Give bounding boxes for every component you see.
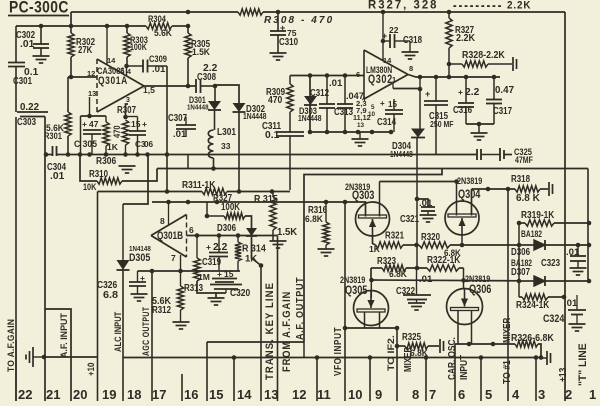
junction y328 x397 <box>395 326 400 331</box>
svg-text:47MF: 47MF <box>515 155 533 165</box>
svg-text:1K: 1K <box>107 142 119 152</box>
svg-text:TO #1: TO #1 <box>502 360 513 384</box>
wire Q305 gate <box>365 280 380 328</box>
wire pin6 bus <box>290 75 364 77</box>
wire VFO line <box>343 200 348 401</box>
capacitor C326 <box>97 271 146 301</box>
wire term6 <box>454 344 456 401</box>
label ALC INPUT <box>113 311 123 352</box>
svg-text:8: 8 <box>412 387 419 401</box>
junction y132 x372 <box>370 130 375 135</box>
svg-text:R 315: R 315 <box>254 194 278 205</box>
resistor R319 <box>519 210 589 226</box>
svg-text:3: 3 <box>538 387 545 401</box>
ground C321 <box>420 215 437 222</box>
label INPUT t6 <box>458 354 470 380</box>
svg-text:4: 4 <box>362 96 366 103</box>
junction y26 x71 <box>69 24 74 29</box>
svg-text:INPUT: INPUT <box>458 354 470 380</box>
title PC-300C <box>8 0 69 17</box>
junction y26 x188 <box>186 24 191 29</box>
svg-text:1,5: 1,5 <box>143 86 155 95</box>
junction bus x137 <box>135 152 140 157</box>
svg-text:Q302: Q302 <box>368 73 393 86</box>
resistor R301 <box>44 77 71 155</box>
pin 8 Q301B <box>160 202 169 226</box>
capacitor C317 <box>486 77 514 124</box>
svg-text:C308: C308 <box>197 72 216 83</box>
wire Q301A output <box>144 85 196 87</box>
wire term19 <box>97 192 99 402</box>
svg-text:15: 15 <box>131 119 141 129</box>
svg-text:TO A.F.GAIN: TO A.F.GAIN <box>6 319 16 372</box>
pin 7 Q301B <box>171 253 181 271</box>
wire left column x16 <box>15 26 17 401</box>
junction y344 x469 <box>467 342 472 347</box>
wire y344 <box>455 311 541 359</box>
junction D306 mid <box>576 243 581 248</box>
wire D301 to L301 <box>214 110 216 130</box>
svg-text:1.5K: 1.5K <box>192 47 210 57</box>
svg-text:19: 19 <box>102 387 116 401</box>
capacitor C304 <box>47 146 66 182</box>
wire Q303-Q304 line <box>380 179 459 184</box>
inductor L301 <box>208 127 236 158</box>
wire D302 down <box>238 112 240 192</box>
pin 6 Q301B <box>189 225 194 235</box>
pin 6 Q302 <box>356 70 360 79</box>
svg-text:18: 18 <box>127 387 141 401</box>
label MIXER t7 <box>402 347 414 372</box>
resistor R310 <box>80 155 157 193</box>
resistor R-1K of C305 block <box>103 116 119 155</box>
svg-text:TRANS. KEY LINE: TRANS. KEY LINE <box>264 282 276 380</box>
junction R318 x488 <box>486 187 491 192</box>
svg-text:R319-1K: R319-1K <box>521 210 555 221</box>
svg-text:+: + <box>142 119 147 129</box>
svg-text:VFO INPUT: VFO INPUT <box>333 327 344 376</box>
resistor R318 <box>511 174 541 204</box>
wire node2 down <box>126 66 128 76</box>
terminal +13 <box>542 351 551 365</box>
wire bus y203 <box>152 201 345 203</box>
resistor R309 <box>266 76 293 113</box>
pin 3 Q301A <box>126 97 130 104</box>
jfet Q303 <box>345 182 390 236</box>
svg-text:2.2K: 2.2K <box>507 0 531 12</box>
junction C318 <box>381 39 386 44</box>
resistor R321 <box>369 231 404 255</box>
diode D306a <box>217 223 257 236</box>
capacitor C319 <box>202 236 228 272</box>
resistor R304 <box>146 14 172 38</box>
capacitor C318 <box>382 25 422 52</box>
wire R314 bottom <box>138 270 241 272</box>
pin 14 Q302 <box>383 12 392 65</box>
junction out x420 <box>418 75 423 80</box>
capacitor C325 <box>477 147 533 165</box>
label R327,328 2.2K <box>368 0 531 12</box>
svg-text:13: 13 <box>264 387 278 401</box>
svg-text:5.6K: 5.6K <box>154 28 172 38</box>
label MIXER t4 <box>501 318 513 343</box>
svg-text:27K: 27K <box>78 45 93 56</box>
svg-text:R324-1K: R324-1K <box>516 300 550 311</box>
wire D307 out <box>545 280 589 282</box>
svg-text:17: 17 <box>152 387 166 401</box>
junction out x492 <box>492 75 497 80</box>
svg-text:+: + <box>458 87 463 97</box>
wire D306a out <box>252 237 262 266</box>
ground C324 <box>569 324 586 331</box>
wire bottom bus left <box>44 356 98 358</box>
junction output x188 <box>186 84 191 89</box>
svg-text:FROM A.F.GAIN: FROM A.F.GAIN <box>281 291 293 372</box>
junction y26 x107 <box>105 24 110 29</box>
wire Q303 drain <box>379 182 381 217</box>
svg-text:C309: C309 <box>149 54 167 64</box>
resistor R322 <box>427 255 461 271</box>
junction x215 y86 <box>213 84 218 89</box>
svg-text:7: 7 <box>171 253 176 263</box>
wire y245 <box>403 244 519 246</box>
junction y271 x152 <box>150 269 155 274</box>
wire term8 <box>396 328 398 401</box>
resistor R325 <box>397 332 439 358</box>
capacitor C308 <box>196 63 218 93</box>
svg-text:11: 11 <box>317 387 331 401</box>
svg-text:1K: 1K <box>245 254 257 265</box>
svg-text:1N4448: 1N4448 <box>187 103 209 112</box>
junction y271 x178 <box>178 269 183 274</box>
junction D306 left <box>517 243 522 248</box>
svg-text:1M: 1M <box>198 272 210 282</box>
resistor R317 <box>205 193 252 228</box>
wire C309 to bus <box>166 66 168 192</box>
svg-text:.01: .01 <box>152 64 165 74</box>
svg-text:47: 47 <box>89 119 99 129</box>
wire term5 <box>480 358 482 402</box>
capacitor C324 <box>543 295 586 325</box>
svg-text:15: 15 <box>388 100 397 109</box>
ground bus <box>119 155 136 174</box>
junction x167 y191 <box>165 189 170 194</box>
svg-text:6.8K: 6.8K <box>305 214 323 224</box>
junction bus x125 <box>123 152 128 157</box>
pin 1 Q302 <box>392 75 420 89</box>
svg-text:2.2: 2.2 <box>465 87 480 98</box>
svg-text:C 305: C 305 <box>74 139 98 150</box>
label +13 <box>558 367 569 382</box>
svg-text:5: 5 <box>371 104 375 111</box>
svg-text:1N4448: 1N4448 <box>243 112 267 121</box>
capacitor C321 <box>400 197 435 225</box>
wire gnd line y132 <box>310 76 392 133</box>
capacitor C307 <box>168 113 196 139</box>
junction top bus x383 <box>381 10 386 15</box>
capacitor C306 <box>129 119 154 155</box>
svg-text:ALC INPUT: ALC INPUT <box>113 311 123 352</box>
svg-text:10: 10 <box>368 111 376 118</box>
terminal R325 <box>440 339 444 353</box>
svg-text:AGC OUTPUT: AGC OUTPUT <box>141 307 151 356</box>
junction y203 x188 <box>186 200 191 205</box>
svg-text:2.2K: 2.2K <box>456 33 476 44</box>
svg-text:12: 12 <box>292 387 306 401</box>
svg-text:8: 8 <box>409 64 413 73</box>
junction R318 x508 <box>506 187 511 192</box>
svg-text:C320: C320 <box>230 287 250 299</box>
svg-text:6.8: 6.8 <box>103 289 118 301</box>
wire term16 <box>181 374 183 401</box>
wire x303 line <box>304 169 442 343</box>
svg-text:TO IF2.: TO IF2. <box>386 335 396 371</box>
svg-text:5: 5 <box>485 387 492 401</box>
capacitor C305 box <box>74 97 106 155</box>
pin 4 Q301A <box>127 69 131 76</box>
svg-text:+: + <box>280 23 285 33</box>
capacitor C313 <box>334 76 364 133</box>
svg-text:R318: R318 <box>511 174 530 185</box>
ground R313 <box>197 281 216 293</box>
op-amp Q302 <box>364 50 408 99</box>
capacitor C311 <box>262 112 304 141</box>
svg-text:C307: C307 <box>168 113 187 124</box>
junction pin6 x310 <box>308 73 313 78</box>
wire Q304 source <box>471 189 473 216</box>
svg-text:9: 9 <box>375 387 382 401</box>
svg-text:.01: .01 <box>329 78 342 88</box>
svg-text:PC-300C: PC-300C <box>9 0 69 17</box>
op-amp Q301A <box>97 59 144 112</box>
junction y132 x327 <box>325 130 330 135</box>
svg-text:C313: C313 <box>334 107 353 118</box>
svg-text:470: 470 <box>112 125 122 138</box>
junction bus x234 <box>232 355 237 360</box>
svg-text:R323: R323 <box>377 256 396 267</box>
junction y245 x416 <box>414 243 419 248</box>
svg-text:470: 470 <box>268 95 283 106</box>
diode D306 <box>511 229 545 258</box>
svg-text:1: 1 <box>392 75 396 84</box>
resistor R324 <box>516 294 566 311</box>
junction x272 y191 <box>270 189 275 194</box>
pin 12 Q301A <box>87 69 95 78</box>
capacitor C303 <box>17 102 48 128</box>
capacitor C309 <box>127 54 168 74</box>
ground Q302 <box>352 132 369 146</box>
wire y268 <box>371 267 464 269</box>
resistor R303 <box>124 26 148 66</box>
resistor R316 <box>305 202 329 249</box>
svg-text:.01: .01 <box>173 129 186 139</box>
ground term22 <box>26 347 44 367</box>
label TO A.F.GAIN <box>6 319 16 372</box>
ground C326 <box>131 294 148 301</box>
junction R319 left <box>517 221 522 226</box>
label VFO INPUT <box>333 327 344 376</box>
svg-text:16: 16 <box>184 387 198 401</box>
svg-text:C322: C322 <box>396 286 415 297</box>
ground C318 <box>402 52 419 59</box>
label TO #1 <box>502 360 513 384</box>
junction rail L301 <box>211 166 216 171</box>
svg-text:+: + <box>217 269 222 279</box>
svg-text:2N3819: 2N3819 <box>457 176 482 186</box>
junction out x452 <box>447 75 452 80</box>
junction bus x167 <box>165 152 170 157</box>
wire D305 down <box>122 270 124 401</box>
svg-text:A.F. OUTPUT: A.F. OUTPUT <box>294 277 306 340</box>
svg-text:R312: R312 <box>152 305 171 316</box>
junction out x466 <box>464 75 469 80</box>
svg-text:22: 22 <box>389 25 399 35</box>
pin 8 Q302 <box>409 64 413 73</box>
svg-text:10: 10 <box>348 387 362 401</box>
wire R323 corner <box>370 268 372 280</box>
junction y132 x391 <box>389 130 394 135</box>
jfet Q306 <box>447 274 492 325</box>
label R306 <box>96 155 116 167</box>
junction R307 top <box>123 115 128 120</box>
svg-text:2.2: 2.2 <box>213 242 228 253</box>
capacitor C314 <box>377 99 403 132</box>
wire y328 <box>345 327 397 329</box>
junction node2 <box>124 64 129 69</box>
label A.F. INPUT <box>59 313 69 358</box>
junction bus x317 <box>315 355 320 360</box>
svg-text:14: 14 <box>107 56 116 65</box>
wire to D301 <box>214 86 216 101</box>
label CAR OSC <box>447 337 458 380</box>
svg-text:15: 15 <box>209 387 223 401</box>
wire pin3 to R307 <box>117 104 136 117</box>
svg-text:C310: C310 <box>279 37 298 48</box>
svg-text:C323: C323 <box>541 258 560 269</box>
ground C310 <box>270 53 287 60</box>
junction R319 right <box>587 221 592 226</box>
ground C320 <box>208 293 227 305</box>
svg-text:MIXER: MIXER <box>501 318 513 343</box>
svg-text:R308 - 470: R308 - 470 <box>264 14 334 26</box>
wire node y271 <box>0 0 1 1</box>
svg-text:13: 13 <box>88 89 96 98</box>
wire node to C306 <box>126 117 138 132</box>
svg-text:7: 7 <box>429 387 436 401</box>
junction x463 y280 <box>461 278 466 283</box>
svg-text:0.47: 0.47 <box>495 85 514 96</box>
svg-text:D305: D305 <box>129 252 150 264</box>
wire term3 <box>535 358 537 402</box>
svg-text:C301: C301 <box>13 76 32 87</box>
svg-text:4: 4 <box>512 387 520 401</box>
wire bus y154 <box>45 154 512 156</box>
svg-text:R322-1K: R322-1K <box>427 255 461 266</box>
wire right border <box>564 12 566 401</box>
capacitor C320 <box>210 285 250 300</box>
svg-text:A.F. INPUT: A.F. INPUT <box>59 313 69 358</box>
diode D303 <box>298 96 322 123</box>
capacitor C302 <box>16 26 49 56</box>
wire Q301B out <box>187 235 278 237</box>
svg-text:+: + <box>206 242 211 252</box>
svg-text:2: 2 <box>565 387 572 401</box>
resistor R311 <box>98 180 291 195</box>
jfet Q305 <box>340 275 389 326</box>
op-amp Q301B <box>151 215 187 258</box>
wire D306 out <box>545 244 589 246</box>
junction bus x46 <box>44 152 49 157</box>
svg-text:Q304: Q304 <box>458 188 481 201</box>
svg-text:D307: D307 <box>511 267 530 278</box>
svg-text:R311-1K: R311-1K <box>182 180 216 191</box>
svg-text:.01: .01 <box>50 171 65 182</box>
junction out x197 <box>195 233 200 238</box>
terminal R328 <box>513 57 517 71</box>
junction top bus x452 <box>447 10 452 15</box>
svg-text:2: 2 <box>120 68 124 75</box>
junction bus x481 <box>479 355 484 360</box>
svg-text:13: 13 <box>357 122 365 129</box>
label T LINE <box>577 343 589 386</box>
resistor R327 <box>446 12 476 77</box>
svg-text:6.8K: 6.8K <box>389 269 407 279</box>
wire Q303 gate <box>373 236 376 245</box>
svg-text:6: 6 <box>189 225 194 235</box>
junction R310 bus <box>78 152 83 157</box>
svg-text:100K: 100K <box>130 42 147 52</box>
svg-text:R310: R310 <box>89 169 108 180</box>
svg-text:R307: R307 <box>117 105 136 116</box>
resistor R320 <box>419 232 461 258</box>
svg-text:C314: C314 <box>377 117 396 128</box>
junction R316 <box>324 200 329 205</box>
wire pin12 node <box>68 75 97 80</box>
junction bus x426 <box>424 355 429 360</box>
capacitor C315 <box>424 77 454 155</box>
svg-text:100K: 100K <box>221 202 241 213</box>
pin block Q302 <box>353 96 376 129</box>
svg-text:D306: D306 <box>217 223 236 234</box>
svg-text:BA182: BA182 <box>521 229 542 239</box>
resistor R314 <box>235 236 266 272</box>
svg-text:1N4448: 1N4448 <box>390 150 413 159</box>
junction y132 x358 <box>356 130 361 135</box>
wire term11 <box>316 358 318 402</box>
junction pin6 x345 <box>343 73 348 78</box>
svg-text:R327, 328: R327, 328 <box>368 0 439 12</box>
svg-text:1K: 1K <box>369 244 381 254</box>
svg-text:0.22: 0.22 <box>20 102 39 113</box>
wire D305 corner <box>123 155 148 205</box>
svg-text:C316: C316 <box>453 105 472 116</box>
svg-text:6: 6 <box>356 70 360 79</box>
svg-text:R328-2.2K: R328-2.2K <box>462 50 506 61</box>
resistor R302 <box>68 26 96 77</box>
label TO IF2 <box>386 335 396 371</box>
svg-text:C317: C317 <box>493 106 512 117</box>
wire top bus <box>71 11 565 13</box>
junction out x238 <box>236 233 241 238</box>
svg-text:.........: ......... <box>452 0 502 10</box>
resistor R323 <box>377 256 407 279</box>
junction out x219 <box>217 233 222 238</box>
wire term7 <box>425 358 427 402</box>
ground C316 <box>471 133 488 140</box>
svg-text:21: 21 <box>46 387 60 401</box>
wire term15 corner <box>207 342 304 401</box>
diode D304 <box>390 77 425 159</box>
